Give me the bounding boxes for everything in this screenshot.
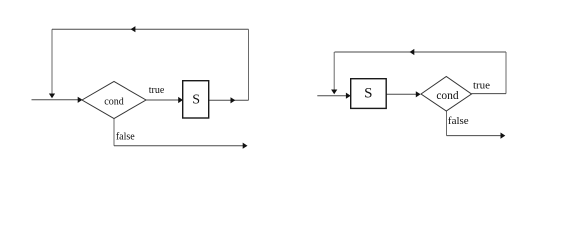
wire: right diagram entry line	[317, 95, 347, 97]
svg-text:false: false	[448, 115, 469, 127]
arrowhead: left diagram entry into cond	[78, 97, 83, 103]
svg-text:S: S	[192, 93, 200, 108]
wire: right diagram loop-back top line	[335, 51, 507, 53]
wire: left diagram false horizontal	[114, 145, 243, 147]
wire: left diagram entry line	[32, 99, 80, 101]
wire: right diagram loop-back left vertical	[333, 52, 335, 90]
process box S (left diagram)	[183, 81, 209, 118]
svg-text:S: S	[364, 86, 372, 102]
arrowhead: right diagram entry into S	[346, 93, 351, 99]
wire: right diagram false horizontal	[447, 135, 502, 137]
wire: left diagram loop-back top line	[52, 28, 249, 30]
wire: left diagram S output to right vertical	[209, 99, 249, 101]
wire: left diagram loop-back right vertical	[248, 29, 250, 100]
process box S (right diagram)	[351, 79, 387, 109]
svg-text:true: true	[473, 80, 490, 92]
arrowhead: right diagram top line, pointing left	[410, 49, 415, 55]
arrowhead: right diagram S output into cond	[416, 91, 421, 97]
svg-text:false: false	[116, 131, 135, 142]
decision diamond cond (left diagram)	[82, 82, 146, 119]
arrowhead: right diagram loop-back down into entry	[331, 90, 337, 95]
arrowhead: left diagram S output mid arrow	[231, 97, 236, 103]
wire: right diagram false vertical	[446, 111, 448, 136]
wire: left diagram loop-back left vertical	[51, 29, 53, 93]
wire: left diagram false vertical	[113, 119, 115, 146]
wire: right diagram S to cond	[386, 93, 416, 95]
arrowhead: left diagram top line, pointing left	[131, 26, 136, 32]
wire: right diagram loop-back right vertical	[505, 52, 507, 94]
decision diamond cond (right diagram)	[421, 77, 472, 112]
wire: left diagram true branch	[146, 99, 179, 101]
arrowhead: right diagram false end	[501, 133, 506, 139]
wire: right diagram true branch horizontal	[472, 93, 507, 95]
svg-text:cond: cond	[104, 96, 123, 107]
arrowhead: left diagram true into S	[178, 97, 183, 103]
svg-text:true: true	[149, 85, 165, 96]
arrowhead: left diagram loop-back down into entry	[49, 94, 55, 99]
arrowhead: left diagram false end	[243, 143, 248, 149]
svg-text:cond: cond	[436, 90, 459, 102]
